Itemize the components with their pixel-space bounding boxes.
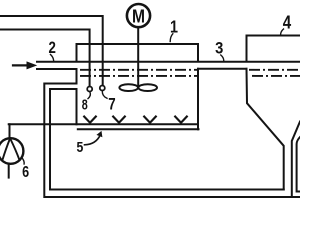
recirculation pipe outer edge: tank1 wall to left riser to bottom run — [44, 84, 300, 198]
liquid level dash-dot lower, tank 1 — [80, 75, 198, 77]
leader for label 6 — [22, 157, 25, 164]
motor U: circle — [127, 4, 150, 27]
tank 1: right wall upper segment — [197, 44, 199, 61]
tank 1: left wall lower segment — [76, 89, 78, 124]
tank 1: right wall lower segment — [197, 69, 199, 130]
pump 6: circle — [0, 138, 23, 164]
pump 6: impeller vanes — [3, 139, 10, 159]
liquid level dash-dot lower, tank 4 — [252, 75, 300, 77]
tank 4: left wall lower + funnel left diagonal + neck left — [247, 69, 284, 190]
pump 6: suction stub from pipe down to pump — [9, 124, 11, 138]
inlet arrow (node 2 feed) — [13, 64, 27, 66]
leader arrow for label 5 — [85, 135, 101, 145]
tank 4: left wall upper segment — [246, 36, 248, 62]
long trough line (pipe 2 / pipe 3 top, spans to right edge) — [37, 61, 300, 63]
pipe 3 bottom line between tanks — [198, 68, 247, 70]
second hopper neck at right edge — [297, 137, 300, 192]
tank 1: outer bottom line — [78, 128, 199, 130]
tank 1: bottom edge continuing left as pump suction pipe — [9, 123, 198, 125]
liquid level dash-dot upper, tank 4 — [249, 69, 300, 71]
svg-text:6: 6 — [22, 164, 29, 181]
tank 4: top edge — [247, 35, 301, 37]
aerator V marks on tank 1 bottom — [84, 117, 96, 123]
svg-text:4: 4 — [283, 12, 291, 32]
nozzle circle 8 — [87, 87, 92, 92]
tank 1: left wall middle segment (between inlet and recirc openings) — [76, 69, 78, 84]
tank 4: funnel right diagonal + neck right — [292, 122, 300, 198]
recirculation pipe inner edge — [50, 89, 284, 190]
wire: feed pipe to nozzle 8 (second line from left edge, bends down) — [0, 30, 90, 87]
svg-text:M: M — [132, 7, 145, 27]
tank 1: top edge — [77, 43, 199, 45]
liquid level dash-dot upper, tank 1 — [80, 69, 198, 71]
svg-text:3: 3 — [215, 40, 223, 58]
wire: feed pipe to nozzle 7 (top line from left edge, bends down) — [0, 16, 103, 85]
agitator propeller blades — [119, 84, 138, 91]
leader for label 4 — [281, 29, 284, 35]
leader for label 8 — [88, 92, 90, 99]
svg-text:5: 5 — [77, 139, 84, 156]
leader for label 2 — [51, 55, 54, 61]
svg-text:8: 8 — [82, 97, 88, 114]
svg-text:2: 2 — [49, 39, 56, 57]
inlet pipe 2 bottom line — [37, 68, 77, 70]
leader for label 1 — [170, 34, 173, 42]
leader for label 3 — [221, 55, 224, 61]
agitator shaft — [137, 27, 139, 87]
svg-text:7: 7 — [108, 96, 115, 114]
leader for label 7 — [102, 91, 107, 99]
tank 1: left wall upper segment — [76, 44, 78, 61]
nozzle circle 7 — [100, 86, 105, 91]
pump 6: discharge stub downward — [8, 164, 10, 177]
svg-text:1: 1 — [170, 16, 178, 36]
